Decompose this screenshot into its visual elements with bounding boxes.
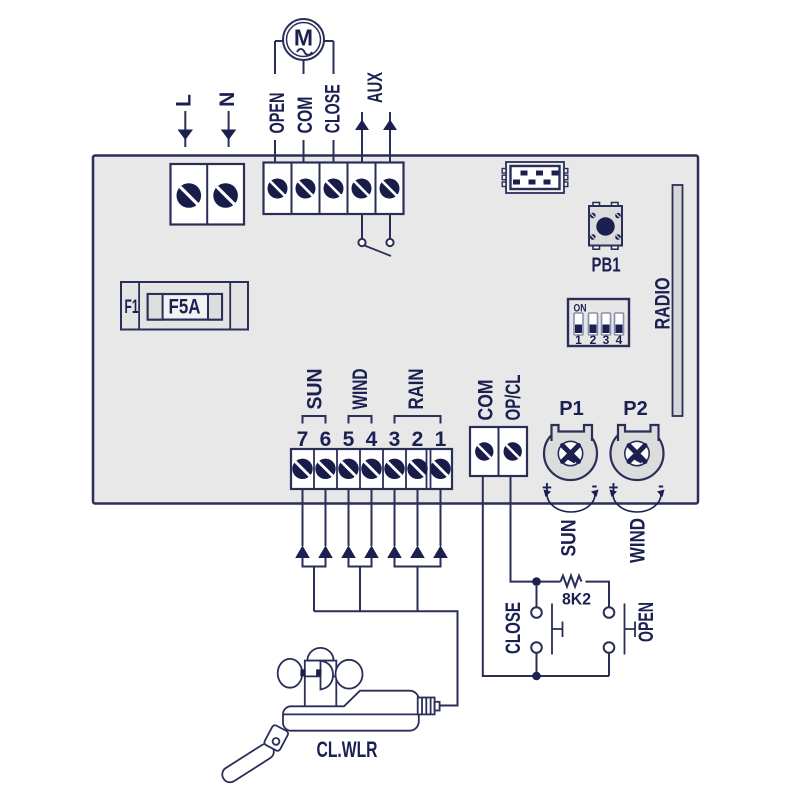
svg-text:CLOSE: CLOSE — [502, 602, 525, 654]
svg-text:2: 2 — [590, 333, 597, 347]
svg-text:COM: COM — [294, 97, 317, 134]
svg-text:OP/CL: OP/CL — [502, 374, 525, 420]
svg-text:M: M — [294, 25, 313, 51]
svg-text:COM: COM — [475, 380, 498, 421]
svg-text:2: 2 — [412, 428, 424, 451]
svg-text:L: L — [173, 94, 196, 107]
svg-text:F1: F1 — [125, 297, 139, 318]
svg-text:3: 3 — [389, 428, 401, 451]
svg-text:6: 6 — [320, 428, 332, 451]
svg-text:4: 4 — [366, 428, 378, 451]
svg-text:1: 1 — [575, 333, 582, 347]
svg-text:SUN: SUN — [558, 520, 581, 557]
svg-text:CL.WLR: CL.WLR — [317, 737, 378, 762]
svg-text:RADIO: RADIO — [652, 278, 675, 330]
svg-text:OPEN: OPEN — [635, 602, 658, 642]
svg-text:P1: P1 — [559, 398, 583, 420]
svg-text:4: 4 — [616, 333, 623, 347]
svg-text:OPEN: OPEN — [266, 93, 289, 134]
svg-text:AUX: AUX — [364, 72, 387, 103]
svg-text:3: 3 — [603, 333, 610, 347]
svg-text:SUN: SUN — [304, 369, 327, 410]
svg-text:P2: P2 — [623, 398, 647, 420]
svg-text:5: 5 — [343, 428, 355, 451]
svg-text:WIND: WIND — [627, 518, 650, 563]
svg-text:PB1: PB1 — [592, 255, 621, 277]
svg-text:CLOSE: CLOSE — [322, 84, 345, 133]
svg-text:7: 7 — [297, 428, 309, 451]
svg-text:F5A: F5A — [169, 296, 201, 319]
svg-text:1: 1 — [435, 428, 447, 451]
svg-text:WIND: WIND — [349, 369, 372, 410]
svg-text:8K2: 8K2 — [562, 590, 591, 609]
svg-text:N: N — [216, 92, 239, 107]
svg-text:RAIN: RAIN — [405, 369, 428, 410]
